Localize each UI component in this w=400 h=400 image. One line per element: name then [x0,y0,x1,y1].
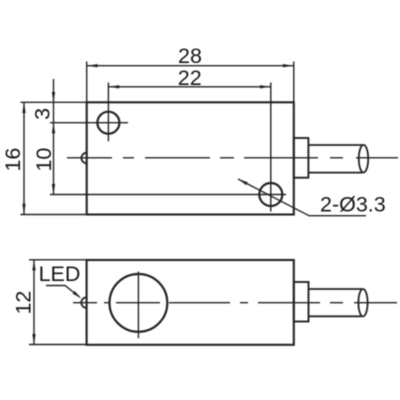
cable gland (top view) [294,138,309,178]
hole crosshair vertical / 22-dim extension left [107,83,109,142]
16 dimension line [23,102,25,214]
3 / 10 dimension line [53,79,55,195]
bottom view body outline [87,260,294,345]
arrow 22 left [109,85,119,88]
svg-text:16: 16 [1,148,25,172]
arrow 3 (down onto top edge) [52,92,55,102]
hole crosshair vertical / 22-dim extension right [270,83,272,212]
arrow 22 right [260,85,270,88]
leader line for 2-O3.3 [238,179,366,216]
mounting hole (top-left) [97,112,119,134]
svg-text:22: 22 [178,66,202,90]
sensing face circle (bottom view) [109,274,167,332]
top view body outline [87,102,294,214]
arrow 12 bottom [32,334,35,344]
svg-text:12: 12 [12,291,36,315]
svg-text:2-Ø3.3: 2-Ø3.3 [320,193,386,217]
arrow 10 bottom (down) [52,184,55,194]
LED bump (bottom view, left edge) [81,297,86,308]
circle crosshair vertical [137,272,139,339]
arrow leader 2-O3.3 [238,179,248,185]
arrow 28 left [88,64,98,67]
arrow 10 top (up) [52,123,55,133]
12 dimension extension lines [29,259,87,261]
cable (bottom view) [309,288,363,290]
arrow LED leader [73,291,82,299]
LED leader line [46,286,80,298]
arrow 12 top [32,261,35,271]
hole crosshair horizontal [50,122,128,124]
cable end ellipse (bottom view) [358,289,367,316]
cable end ellipse (top view) [359,145,368,173]
mounting hole (bottom-right) [259,183,282,206]
top view centerline (dash-dot) [67,157,398,159]
28 dimension line [87,65,294,67]
28 dimension extension lines [86,62,88,103]
svg-text:10: 10 [32,148,56,172]
12 dimension line [33,260,35,345]
arrow 28 right [283,64,293,67]
arrow 16 top [22,103,25,113]
cable gland (bottom view) [294,282,309,322]
cable (top view) [308,144,362,146]
svg-text:LED: LED [39,262,81,286]
arrow 16 bottom [22,204,25,214]
LED bump (top view, left edge) [81,153,86,164]
bottom view centerline (dash-dot) [73,302,397,304]
top view internal line through lower hole (10-dim extension) [50,194,286,196]
16 dimension extension lines (left of top view) [21,101,87,103]
svg-text:28: 28 [178,44,202,68]
svg-text:3: 3 [30,108,54,120]
22 dimension line [108,86,270,88]
